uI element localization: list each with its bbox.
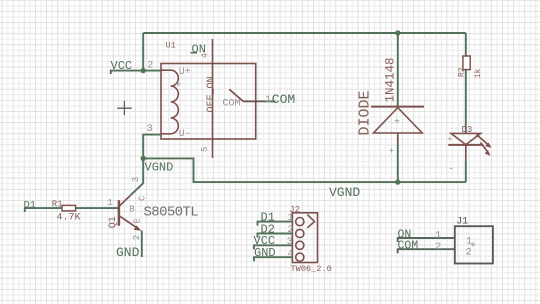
junction diode bottom <box>395 179 400 184</box>
connector J2 pin1 chevron <box>307 215 314 228</box>
svg-text:5: 5 <box>200 147 210 152</box>
svg-text:1: 1 <box>288 213 294 224</box>
wire R1 to base <box>62 207 119 209</box>
junction VCC <box>141 68 146 73</box>
wire J2 GND <box>254 257 292 261</box>
svg-text:DIODE: DIODE <box>357 90 374 135</box>
svg-text:1k: 1k <box>474 68 483 78</box>
svg-text:U-: U- <box>179 129 191 140</box>
wire J1 ON <box>398 238 455 242</box>
LED triangle <box>451 133 481 144</box>
svg-text:3: 3 <box>287 237 293 248</box>
LED cathode bar <box>448 144 483 146</box>
svg-text:COM: COM <box>272 92 295 107</box>
wire D1 to R1 <box>25 208 62 212</box>
svg-text:3: 3 <box>147 124 153 135</box>
wire relay pin3 to VGND junction <box>143 135 161 159</box>
svg-text:ON: ON <box>192 42 206 56</box>
svg-text:R1: R1 <box>52 200 63 210</box>
sheet origin cross <box>117 101 131 115</box>
resistor R1 body <box>62 205 76 211</box>
svg-text:B: B <box>129 204 135 214</box>
LED arrow 1 <box>477 135 492 148</box>
connector J2 pin3 circle <box>296 241 304 249</box>
LED cathode stub <box>465 145 467 161</box>
svg-text:R2: R2 <box>458 67 467 77</box>
svg-text:TW06_2.0: TW06_2.0 <box>291 264 332 274</box>
svg-text:+: + <box>447 135 452 145</box>
svg-text:2: 2 <box>288 225 294 236</box>
svg-text:2: 2 <box>147 61 153 72</box>
wire J2 D1 <box>258 222 293 226</box>
svg-text:VGND: VGND <box>145 161 174 175</box>
wire R2 column <box>465 33 467 134</box>
wire J2 VCC <box>254 245 292 249</box>
svg-text:S8050TL: S8050TL <box>144 205 199 221</box>
svg-text:1N4148: 1N4148 <box>384 57 398 102</box>
wire collector to VGND junction <box>131 158 143 194</box>
LED arrow 2 <box>481 143 491 156</box>
relay U1 box <box>161 64 256 140</box>
svg-text:E: E <box>132 218 142 223</box>
svg-text:4: 4 <box>288 249 294 260</box>
svg-text:3: 3 <box>131 177 141 182</box>
svg-text:-: - <box>448 164 453 174</box>
wire emitter to GND <box>141 231 143 258</box>
svg-text:OFF_ON: OFF_ON <box>206 76 217 112</box>
svg-text:COM: COM <box>223 99 241 110</box>
wire COM stub <box>264 100 276 102</box>
wire VGND to rail <box>143 158 466 182</box>
transistor collector diagonal <box>119 195 131 207</box>
svg-text:+: + <box>175 80 182 92</box>
resistor R2 body <box>463 56 470 70</box>
wire VCC riser to top rail <box>142 33 144 71</box>
svg-text:C: C <box>138 195 148 201</box>
junction top rail / diode branch <box>395 30 400 35</box>
wire J1 COM <box>398 249 455 253</box>
svg-text:2: 2 <box>132 235 142 240</box>
svg-text:+: + <box>470 241 476 252</box>
connector J1 box <box>455 226 493 263</box>
node ON label stub <box>191 52 198 54</box>
svg-text:1: 1 <box>435 231 441 242</box>
connector J2 pin4 circle <box>296 253 304 261</box>
connector J2 box <box>292 213 317 263</box>
diode anode stub <box>397 133 399 143</box>
connector J2 pin2 circle <box>296 229 304 237</box>
wire diode top drop <box>397 33 399 106</box>
svg-text:+: + <box>394 118 400 129</box>
transistor emitter diagonal with arrow <box>119 216 141 231</box>
wire LED to rail <box>465 161 467 182</box>
relay COM pin wire <box>243 100 264 102</box>
wire top rail <box>143 32 466 34</box>
svg-text:VGND: VGND <box>329 185 360 200</box>
svg-text:4.7K: 4.7K <box>57 212 81 223</box>
wire VCC horizontal <box>111 71 161 74</box>
svg-text:+: + <box>389 147 394 157</box>
relay coil <box>161 70 178 134</box>
connector J2 pin1 circle <box>296 218 304 226</box>
wire diode bottom <box>397 143 399 182</box>
svg-text:COM: COM <box>398 240 419 253</box>
relay switch contact line (pins 4-5) <box>212 39 214 158</box>
svg-text:U1: U1 <box>166 40 176 50</box>
svg-text:VCC: VCC <box>111 59 133 73</box>
junction VGND <box>141 156 146 161</box>
relay lever <box>229 89 243 101</box>
svg-text:2: 2 <box>435 242 441 253</box>
wire J2 D2 <box>258 234 293 238</box>
svg-text:1: 1 <box>265 95 271 106</box>
svg-text:GND: GND <box>116 245 140 260</box>
transistor Q1 base bar <box>118 200 121 226</box>
svg-text:GND: GND <box>254 246 276 260</box>
svg-text:Q1: Q1 <box>108 216 119 228</box>
svg-text:1: 1 <box>107 198 112 208</box>
diode cathode bar <box>371 106 424 108</box>
diode triangle <box>373 108 422 133</box>
svg-text:U+: U+ <box>179 67 191 78</box>
